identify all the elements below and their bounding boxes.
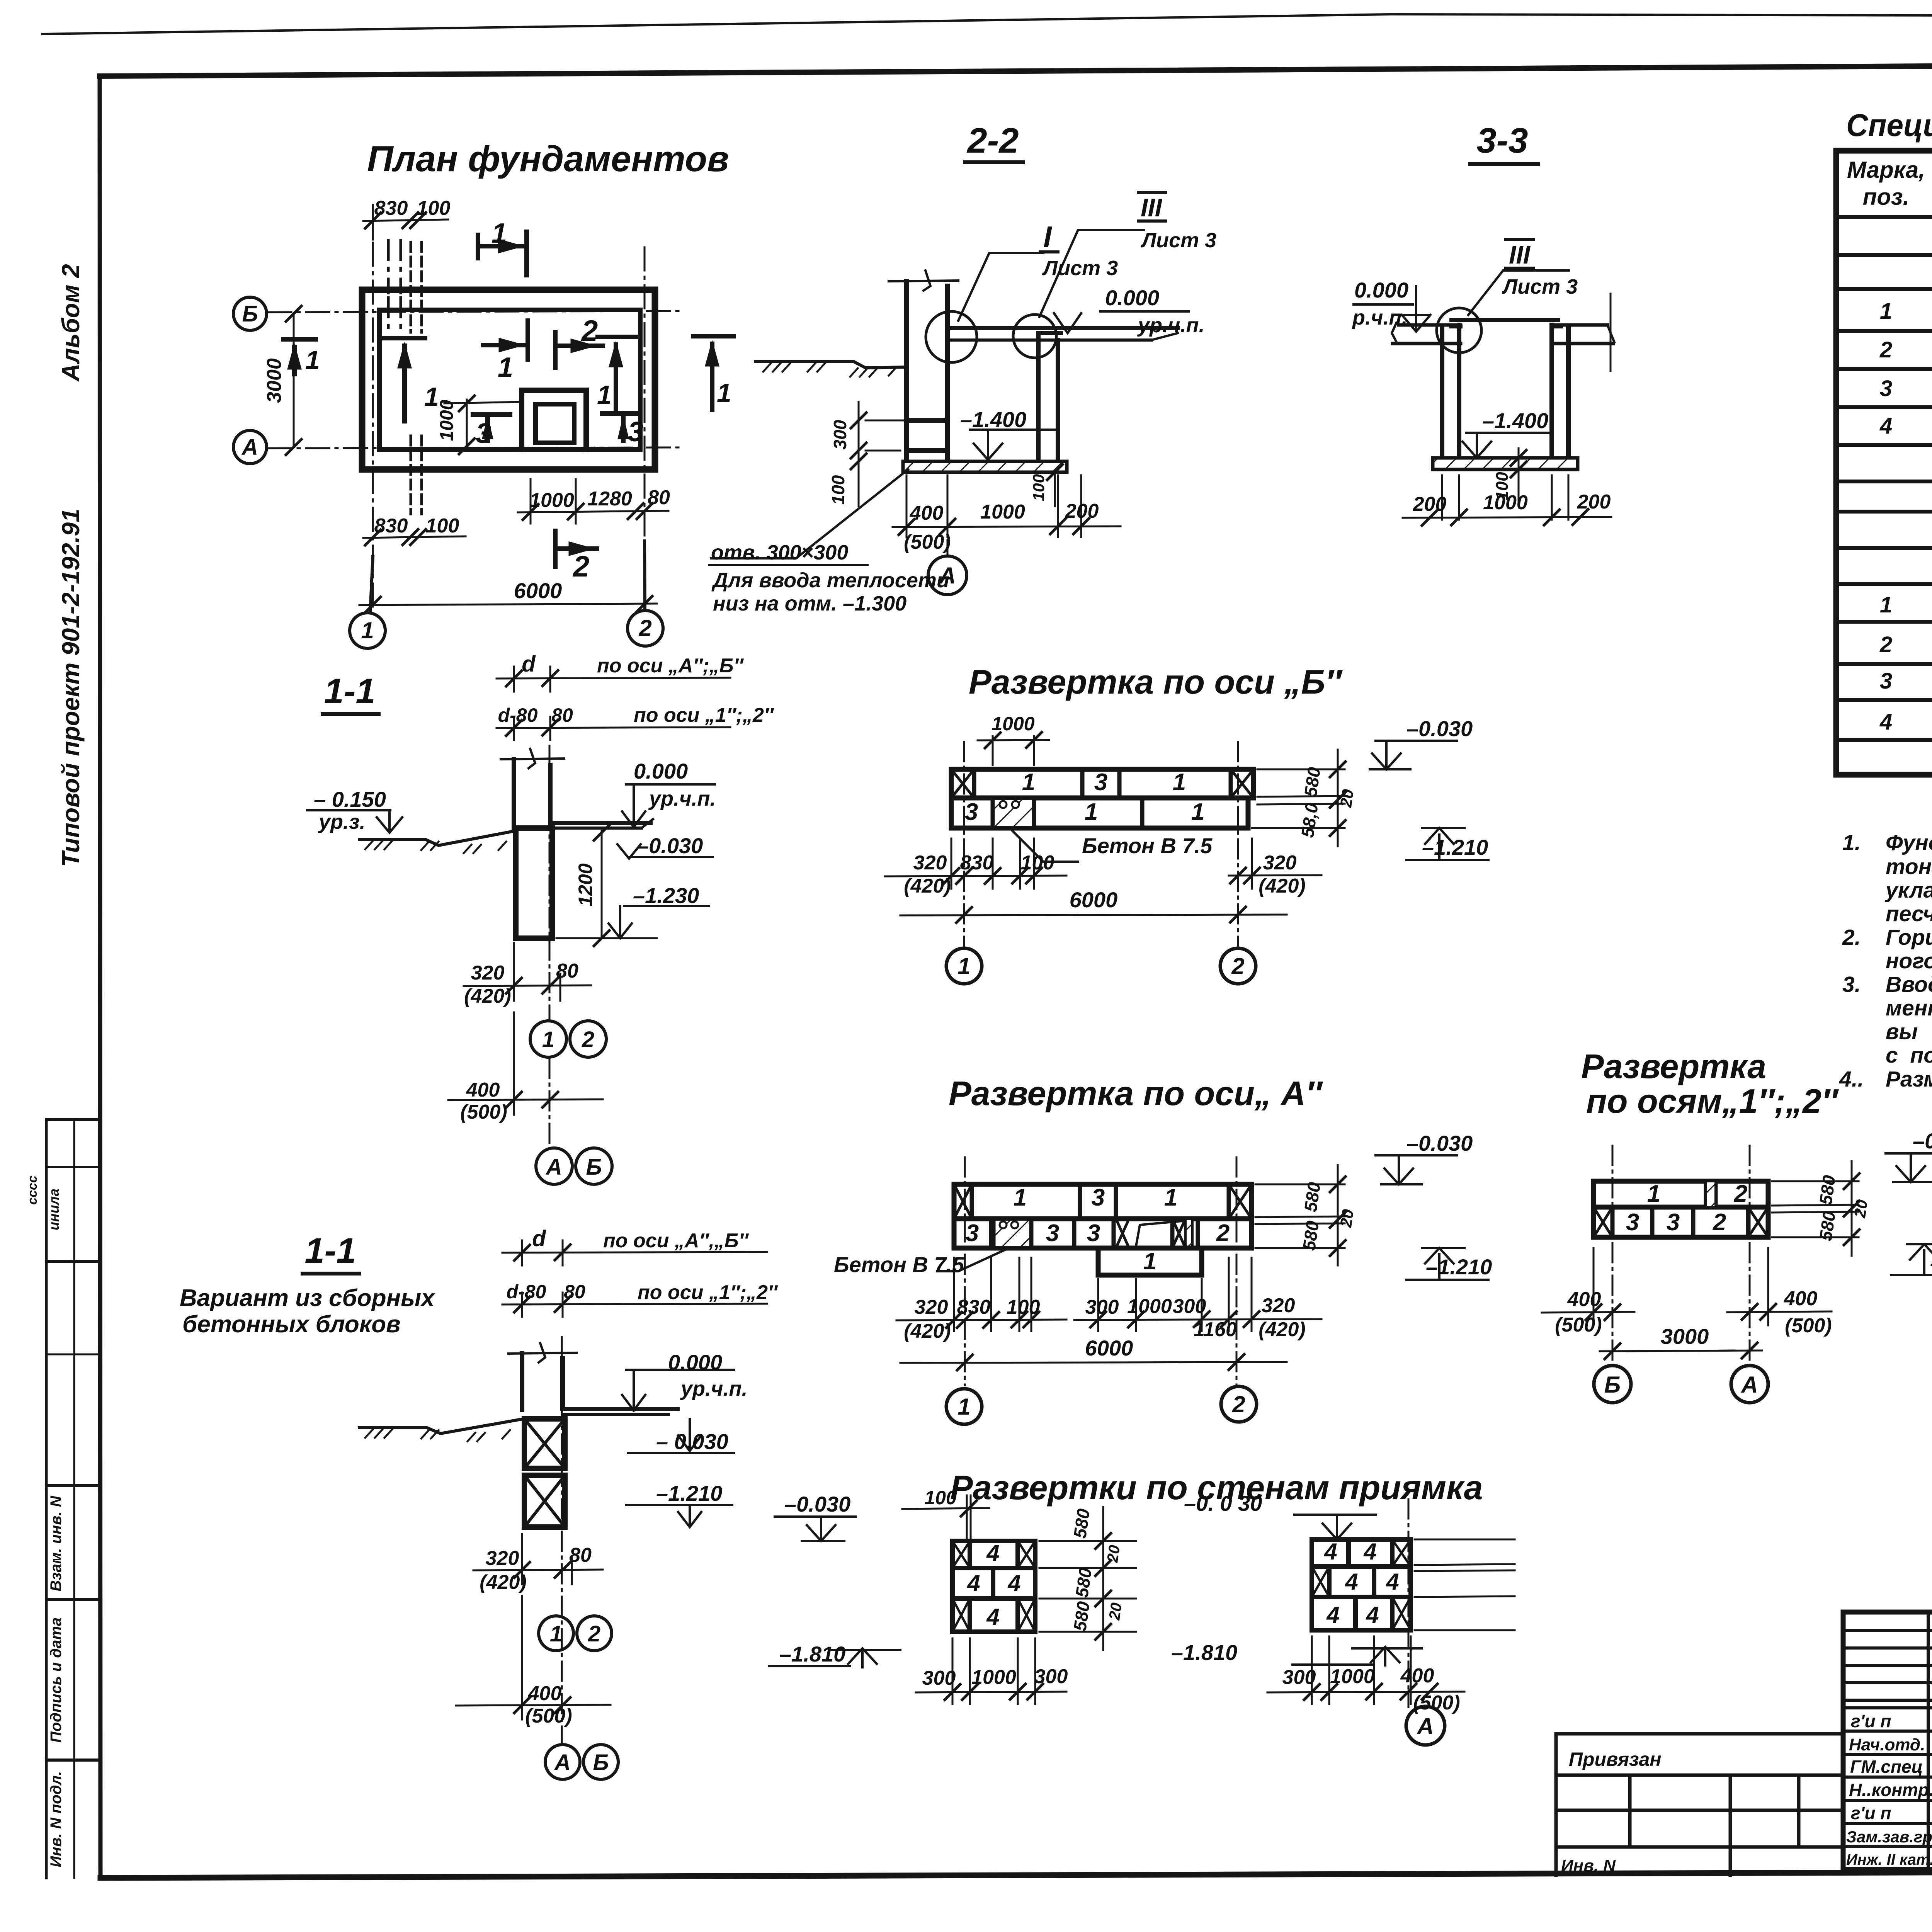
svg-text:1000: 1000 xyxy=(971,1666,1016,1689)
svg-text:–1.210: –1.210 xyxy=(1422,835,1488,859)
svg-text:1: 1 xyxy=(717,378,731,408)
svg-text:–0.030: –0.030 xyxy=(1913,1129,1932,1153)
svg-text:1: 1 xyxy=(1164,1184,1177,1211)
svg-text:3: 3 xyxy=(1626,1209,1639,1236)
svg-text:укладываются на выровненное: укладываются на выровненное песчаное осн… xyxy=(1884,878,1932,903)
svg-text:58,0: 58,0 xyxy=(1297,801,1322,838)
svg-text:d: d xyxy=(532,1226,546,1251)
svg-text:–1.810: –1.810 xyxy=(779,1642,845,1666)
svg-text:6000: 6000 xyxy=(1070,888,1118,912)
svg-text:580: 580 xyxy=(1070,1600,1094,1633)
svg-text:– 0.030: – 0.030 xyxy=(656,1429,728,1454)
svg-text:вы фундаментов крупнозерни: вы фундаментов крупнозернистым песком сл… xyxy=(1886,1019,1932,1044)
svg-text:А: А xyxy=(1416,1713,1434,1739)
svg-text:1: 1 xyxy=(1022,769,1035,796)
svg-text:1: 1 xyxy=(1647,1180,1660,1207)
svg-text:ур.з.: ур.з. xyxy=(318,810,366,833)
svg-text:1: 1 xyxy=(305,345,320,375)
svg-text:4: 4 xyxy=(1366,1602,1379,1628)
svg-text:Нач.отд.: Нач.отд. xyxy=(1849,1735,1925,1754)
svg-text:4: 4 xyxy=(1879,709,1892,735)
svg-text:100: 100 xyxy=(924,1487,957,1509)
svg-text:(500): (500) xyxy=(525,1705,572,1727)
svg-text:4: 4 xyxy=(967,1570,980,1596)
svg-text:4: 4 xyxy=(1363,1539,1376,1565)
svg-text:2: 2 xyxy=(572,550,589,583)
svg-text:4: 4 xyxy=(1345,1569,1358,1595)
svg-text:3: 3 xyxy=(1880,668,1892,694)
svg-text:поз.: поз. xyxy=(1863,184,1910,210)
svg-text:Развертка по оси„ А″: Развертка по оси„ А″ xyxy=(949,1074,1323,1112)
svg-text:100: 100 xyxy=(426,515,459,537)
svg-text:3: 3 xyxy=(476,418,491,449)
svg-text:инила: инила xyxy=(46,1189,62,1230)
svg-text:3: 3 xyxy=(1667,1209,1680,1236)
svg-text:2: 2 xyxy=(1713,1209,1726,1236)
svg-text:300: 300 xyxy=(830,420,850,449)
svg-text:3: 3 xyxy=(1880,376,1892,401)
svg-text:4: 4 xyxy=(1007,1570,1020,1596)
svg-text:2: 2 xyxy=(1734,1180,1747,1207)
svg-text:Б: Б xyxy=(586,1155,602,1180)
svg-text:Вводы трубопроводов заклад: Вводы трубопроводов закладываются до уст… xyxy=(1886,972,1932,997)
svg-text:по оси „А″;„Б″: по оси „А″;„Б″ xyxy=(597,655,744,677)
svg-text:Вариант из сборных: Вариант из сборных xyxy=(180,1285,435,1311)
svg-text:80: 80 xyxy=(551,704,573,726)
svg-text:580: 580 xyxy=(1815,1174,1839,1206)
svg-text:d-80: d-80 xyxy=(498,704,538,726)
svg-text:ур.ч.п.: ур.ч.п. xyxy=(1137,314,1205,337)
svg-text:6000: 6000 xyxy=(1085,1336,1133,1360)
svg-text:20: 20 xyxy=(1337,788,1357,809)
svg-text:320: 320 xyxy=(486,1547,519,1570)
svg-text:400: 400 xyxy=(466,1079,500,1101)
svg-text:1: 1 xyxy=(1880,592,1892,617)
svg-text:по оси „1″;„2″: по оси „1″;„2″ xyxy=(638,1281,778,1304)
svg-text:ур.ч.п.: ур.ч.п. xyxy=(648,787,716,810)
svg-text:6000: 6000 xyxy=(514,578,562,603)
svg-text:1-1: 1-1 xyxy=(305,1231,356,1270)
svg-text:г'и п: г'и п xyxy=(1851,1803,1891,1823)
svg-text:1: 1 xyxy=(492,218,507,249)
svg-text:1: 1 xyxy=(361,617,374,643)
svg-text:по оси „А″,„Б″: по оси „А″,„Б″ xyxy=(603,1230,749,1252)
svg-text:–0. 0 30: –0. 0 30 xyxy=(1184,1491,1262,1515)
svg-text:2: 2 xyxy=(1231,953,1244,979)
svg-text:(420): (420) xyxy=(904,875,951,897)
svg-text:по оси „1″;„2″: по оси „1″;„2″ xyxy=(634,704,774,726)
svg-text:830: 830 xyxy=(374,515,408,537)
svg-text:–0.030: –0.030 xyxy=(1406,1131,1473,1155)
svg-text:20: 20 xyxy=(1337,1208,1357,1229)
svg-text:Б: Б xyxy=(593,1750,609,1775)
svg-text:(420): (420) xyxy=(464,985,511,1007)
svg-text:ГМ.спец: ГМ.спец xyxy=(1850,1757,1923,1777)
svg-text:100: 100 xyxy=(828,475,848,505)
svg-text:III: III xyxy=(1509,240,1531,269)
svg-text:бетонных блоков: бетонных блоков xyxy=(182,1311,401,1338)
svg-text:580: 580 xyxy=(1299,1219,1323,1252)
svg-text:1160: 1160 xyxy=(1194,1318,1237,1341)
svg-text:Бетон В 7.5: Бетон В 7.5 xyxy=(834,1252,964,1277)
svg-text:400: 400 xyxy=(528,1682,562,1705)
svg-text:сссс: сссс xyxy=(25,1175,40,1205)
svg-text:1-1: 1-1 xyxy=(324,672,376,711)
svg-text:3.: 3. xyxy=(1842,972,1861,997)
svg-text:400: 400 xyxy=(910,502,944,524)
svg-text:3: 3 xyxy=(1046,1220,1059,1247)
svg-text:Взам. инв. N: Взам. инв. N xyxy=(48,1495,65,1591)
svg-text:ур.ч.п.: ур.ч.п. xyxy=(680,1377,748,1400)
svg-text:(500): (500) xyxy=(1785,1315,1832,1337)
svg-text:3-3: 3-3 xyxy=(1477,121,1528,160)
svg-text:Лист 3: Лист 3 xyxy=(1042,257,1118,280)
svg-text:4: 4 xyxy=(986,1540,999,1566)
svg-text:Размеры в круглых скобках: Размеры в круглых скобках даны для t = –… xyxy=(1886,1067,1932,1092)
svg-text:–1.400: –1.400 xyxy=(1482,408,1548,433)
svg-text:300: 300 xyxy=(1173,1295,1206,1318)
svg-text:Привязан: Привязан xyxy=(1569,1748,1662,1770)
svg-text:1: 1 xyxy=(1143,1248,1156,1275)
svg-text:низ на отм. –1.300: низ на отм. –1.300 xyxy=(713,592,906,615)
svg-text:2: 2 xyxy=(1879,337,1892,362)
svg-text:3000: 3000 xyxy=(263,358,286,403)
svg-text:200: 200 xyxy=(1577,491,1611,513)
svg-text:830: 830 xyxy=(374,197,408,219)
svg-text:–1.400: –1.400 xyxy=(960,407,1026,432)
svg-text:1000: 1000 xyxy=(1127,1295,1172,1318)
svg-text:А: А xyxy=(1740,1372,1758,1398)
svg-text:4: 4 xyxy=(1326,1602,1339,1628)
svg-text:580: 580 xyxy=(1300,1181,1324,1213)
svg-text:1: 1 xyxy=(1014,1184,1027,1211)
svg-text:320: 320 xyxy=(1263,852,1297,874)
svg-text:2: 2 xyxy=(1216,1220,1230,1247)
svg-text:400: 400 xyxy=(1400,1665,1434,1687)
svg-text:1: 1 xyxy=(498,352,513,383)
svg-text:Спецификация сборных бетонных: Спецификация сборных бетонных блоков фун… xyxy=(1846,108,1932,143)
svg-text:Зам.зав.гр.: Зам.зав.гр. xyxy=(1846,1828,1932,1846)
svg-text:80: 80 xyxy=(564,1281,585,1303)
svg-text:320: 320 xyxy=(471,962,505,984)
svg-text:Инв. N: Инв. N xyxy=(1561,1856,1616,1875)
svg-text:–1.210: –1.210 xyxy=(1426,1255,1492,1279)
svg-text:А: А xyxy=(241,435,258,460)
svg-text:d: d xyxy=(522,651,536,677)
svg-text:– 0.150: – 0.150 xyxy=(314,787,386,811)
svg-text:(420): (420) xyxy=(480,1571,526,1594)
svg-text:А: А xyxy=(545,1155,562,1180)
svg-text:830: 830 xyxy=(957,1296,991,1318)
svg-text:тона класса В 7.5 или из: тона класса В 7.5 или из сборных бетонны… xyxy=(1886,854,1932,879)
svg-text:Лист 3: Лист 3 xyxy=(1502,275,1578,298)
svg-text:–1.810: –1.810 xyxy=(1171,1640,1237,1665)
svg-text:План фундаментов: План фундаментов xyxy=(367,138,729,179)
svg-text:(500): (500) xyxy=(1413,1692,1460,1714)
svg-text:80: 80 xyxy=(648,486,670,509)
svg-text:–0.030: –0.030 xyxy=(784,1492,850,1516)
svg-text:Н..контр.: Н..контр. xyxy=(1849,1780,1932,1800)
svg-text:р.ч.п.: р.ч.п. xyxy=(1352,306,1407,329)
svg-text:300: 300 xyxy=(1085,1296,1119,1318)
svg-text:1000: 1000 xyxy=(529,489,574,512)
svg-text:80: 80 xyxy=(556,960,578,982)
svg-text:1: 1 xyxy=(597,380,612,410)
svg-text:1: 1 xyxy=(550,1621,562,1646)
svg-text:100: 100 xyxy=(417,197,451,219)
svg-text:А: А xyxy=(554,1750,571,1775)
svg-text:3000: 3000 xyxy=(1661,1324,1709,1349)
svg-text:ного раствора состава 1:2: ного раствора состава 1:2 на отметке –0.… xyxy=(1886,949,1932,973)
svg-text:2.: 2. xyxy=(1842,925,1861,950)
svg-text:580: 580 xyxy=(1071,1566,1095,1599)
svg-text:1: 1 xyxy=(1173,769,1186,796)
svg-text:(500): (500) xyxy=(460,1101,507,1123)
svg-text:3: 3 xyxy=(1092,1184,1105,1211)
svg-text:4: 4 xyxy=(1324,1539,1337,1565)
svg-text:по осям„1″;„2″: по осям„1″;„2″ xyxy=(1586,1082,1839,1120)
svg-text:4: 4 xyxy=(1386,1569,1399,1595)
svg-text:300: 300 xyxy=(1282,1666,1316,1689)
svg-text:Лист 3: Лист 3 xyxy=(1140,229,1216,252)
svg-text:2: 2 xyxy=(1232,1391,1245,1417)
svg-text:3: 3 xyxy=(628,417,643,447)
svg-text:830: 830 xyxy=(960,852,994,874)
svg-text:г'и п: г'и п xyxy=(1851,1711,1891,1731)
svg-text:100: 100 xyxy=(1029,474,1048,501)
svg-text:3: 3 xyxy=(965,799,978,825)
svg-text:Бетон В 7.5: Бетон В 7.5 xyxy=(1082,833,1213,858)
svg-text:(420): (420) xyxy=(1259,1318,1305,1341)
svg-text:0.000: 0.000 xyxy=(1354,278,1408,302)
svg-text:200: 200 xyxy=(1065,500,1099,522)
svg-text:300: 300 xyxy=(922,1667,956,1689)
svg-text:2: 2 xyxy=(588,1621,600,1646)
svg-text:20: 20 xyxy=(1850,1199,1871,1219)
svg-text:2: 2 xyxy=(1879,632,1892,657)
svg-text:2: 2 xyxy=(581,315,598,347)
svg-text:1: 1 xyxy=(424,382,439,412)
svg-text:320: 320 xyxy=(913,852,947,874)
svg-text:Марка,: Марка, xyxy=(1847,157,1925,183)
svg-text:0.000: 0.000 xyxy=(1105,286,1159,310)
svg-text:320: 320 xyxy=(915,1296,948,1318)
svg-text:20: 20 xyxy=(1106,1602,1125,1621)
svg-text:1: 1 xyxy=(1191,799,1204,825)
svg-text:1: 1 xyxy=(957,1394,970,1420)
svg-text:1: 1 xyxy=(957,953,970,979)
svg-text:Альбом 2: Альбом 2 xyxy=(57,264,85,382)
svg-text:I: I xyxy=(1043,220,1052,254)
svg-text:Для ввода теплосети: Для ввода теплосети xyxy=(711,569,949,592)
svg-text:80: 80 xyxy=(569,1544,592,1566)
svg-text:Инж. II кат.: Инж. II кат. xyxy=(1846,1851,1932,1868)
svg-text:Типовой проект 901-2-192.91: Типовой проект 901-2-192.91 xyxy=(57,509,85,867)
svg-text:отв. 300×300: отв. 300×300 xyxy=(711,541,848,564)
svg-text:3: 3 xyxy=(1094,769,1107,796)
svg-text:Развертка по оси „Б″: Развертка по оси „Б″ xyxy=(969,663,1343,701)
svg-text:100: 100 xyxy=(1007,1296,1040,1318)
svg-text:300: 300 xyxy=(1034,1665,1068,1688)
svg-text:III: III xyxy=(1141,193,1163,222)
svg-text:1.: 1. xyxy=(1842,830,1861,855)
svg-text:1200: 1200 xyxy=(575,863,596,906)
svg-text:ментов с последующей засып: ментов с последующей засыпкой траншей до… xyxy=(1886,996,1932,1020)
svg-text:580: 580 xyxy=(1300,766,1324,798)
svg-text:400: 400 xyxy=(1567,1288,1601,1311)
svg-text:(500): (500) xyxy=(1555,1314,1602,1336)
svg-text:Б: Б xyxy=(1604,1372,1621,1398)
svg-text:–0.030: –0.030 xyxy=(1406,716,1473,741)
svg-text:4..: 4.. xyxy=(1839,1067,1864,1092)
svg-text:1000: 1000 xyxy=(980,501,1025,523)
svg-text:2: 2 xyxy=(638,615,651,641)
svg-text:(500): (500) xyxy=(904,531,951,553)
svg-text:580: 580 xyxy=(1815,1210,1839,1242)
svg-text:Б: Б xyxy=(242,301,258,327)
svg-text:1280: 1280 xyxy=(587,488,632,510)
svg-text:100: 100 xyxy=(1493,472,1512,500)
svg-text:100: 100 xyxy=(1021,852,1054,874)
svg-text:с поливкой водой и тра: с поливкой водой и трамбованием. xyxy=(1886,1043,1932,1068)
svg-text:1: 1 xyxy=(1085,799,1098,825)
svg-text:Фундаменты под стены – ленто: Фундаменты под стены – ленточные из моно… xyxy=(1886,830,1932,855)
svg-text:580: 580 xyxy=(1070,1507,1094,1540)
svg-text:0.000: 0.000 xyxy=(634,759,688,783)
svg-text:200: 200 xyxy=(1413,493,1447,515)
svg-text:(420): (420) xyxy=(1259,875,1305,897)
svg-text:320: 320 xyxy=(1262,1294,1295,1317)
svg-text:–1.230: –1.230 xyxy=(633,883,699,908)
svg-text:1000: 1000 xyxy=(1330,1665,1375,1688)
svg-text:песчаных грунтах) или пе: песчаных грунтах) или песчаную подготовк… xyxy=(1886,901,1932,926)
svg-text:Горизонтальная гидроизоляция: Горизонтальная гидроизоляция стен выполн… xyxy=(1886,925,1932,950)
svg-text:–1.210: –1.210 xyxy=(1930,1251,1932,1275)
svg-text:0.000: 0.000 xyxy=(668,1350,722,1374)
svg-text:Подпись и дата: Подпись и дата xyxy=(48,1617,65,1743)
svg-text:400: 400 xyxy=(1784,1287,1818,1310)
svg-text:3: 3 xyxy=(1087,1220,1100,1247)
svg-text:1000: 1000 xyxy=(437,400,457,441)
svg-text:1000: 1000 xyxy=(992,713,1034,735)
svg-text:2-2: 2-2 xyxy=(967,121,1019,160)
svg-text:1: 1 xyxy=(542,1027,554,1052)
svg-text:1: 1 xyxy=(1880,299,1892,324)
svg-text:Инв. N подл.: Инв. N подл. xyxy=(48,1771,65,1867)
svg-text:–1.210: –1.210 xyxy=(656,1481,722,1505)
svg-text:20: 20 xyxy=(1104,1544,1123,1564)
svg-text:4: 4 xyxy=(1879,413,1892,439)
svg-text:2: 2 xyxy=(582,1027,594,1052)
svg-text:4: 4 xyxy=(986,1604,999,1630)
svg-text:3: 3 xyxy=(966,1220,979,1247)
svg-text:–0.030: –0.030 xyxy=(637,833,703,858)
svg-text:d-80: d-80 xyxy=(507,1281,546,1303)
svg-text:Развертка: Развертка xyxy=(1581,1047,1766,1085)
svg-text:(420): (420) xyxy=(904,1320,951,1342)
